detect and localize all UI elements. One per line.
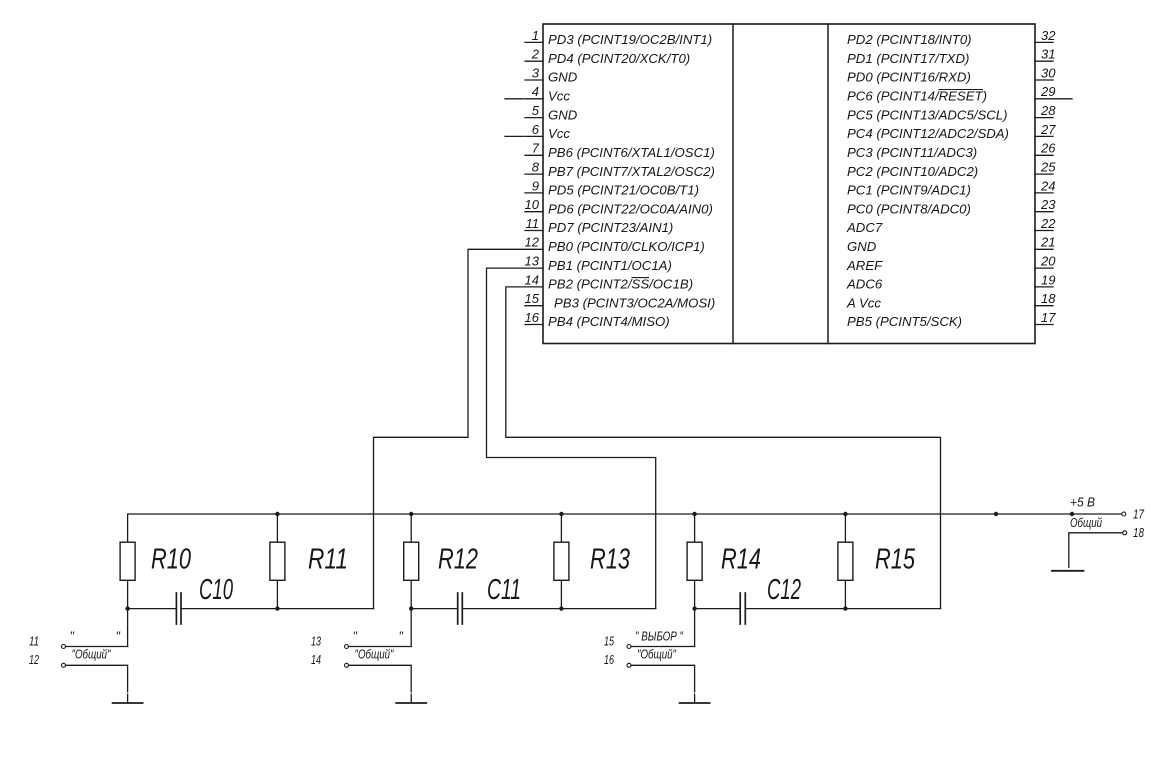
svg-text:ADC6: ADC6	[846, 277, 883, 292]
capacitor C11	[457, 593, 459, 624]
ground symbol	[113, 702, 143, 704]
wire pin 16 to ground	[631, 665, 695, 692]
svg-text:PD1 (PCINT17/TXD): PD1 (PCINT17/TXD)	[847, 51, 969, 66]
junction dot	[1070, 512, 1074, 516]
pin 24 lead	[1035, 192, 1053, 194]
svg-text:1: 1	[532, 28, 539, 43]
IC U1 body	[543, 24, 1035, 344]
svg-text:29: 29	[1040, 84, 1055, 99]
wire pin12 PB0 to node of stage1	[374, 249, 544, 608]
svg-text:PB6 (PCINT6/XTAL1/OSC1): PB6 (PCINT6/XTAL1/OSC1)	[548, 145, 715, 160]
pin 21 lead	[1035, 248, 1053, 250]
junction dot	[559, 512, 563, 516]
svg-text:R13: R13	[590, 544, 630, 576]
svg-text:8: 8	[532, 160, 540, 175]
svg-text:4: 4	[532, 84, 539, 99]
svg-text:16: 16	[604, 653, 614, 667]
svg-text:12: 12	[29, 653, 39, 667]
svg-text:28: 28	[1040, 103, 1056, 118]
pin 29 lead	[1035, 98, 1072, 100]
svg-text:31: 31	[1041, 47, 1055, 62]
node stage3 bottom left wire	[695, 608, 741, 610]
svg-text:6: 6	[532, 122, 540, 137]
pin 25 lead	[1035, 173, 1053, 175]
capacitor C12	[739, 593, 741, 624]
svg-text:R14: R14	[721, 544, 761, 576]
junction dot	[559, 606, 563, 610]
wire pin13 PB1 to node of stage2	[487, 268, 656, 608]
node stage1 bottom left wire	[128, 608, 177, 610]
wire pin14 PB2 to node of stage3	[506, 287, 941, 609]
svg-text:5: 5	[532, 103, 540, 118]
pin 1 lead	[525, 41, 543, 43]
IC internal divider left	[732, 24, 734, 344]
pin 4 lead	[525, 98, 543, 100]
svg-text:R11: R11	[308, 544, 348, 576]
junction dot	[275, 512, 279, 516]
pin 19 lead	[1035, 286, 1053, 288]
svg-text:AREF: AREF	[846, 258, 883, 273]
pin 28 lead	[1035, 117, 1053, 119]
svg-text:": "	[116, 630, 121, 644]
connector pin 13 circle	[345, 645, 349, 649]
junction dot	[409, 606, 413, 610]
ground symbol	[680, 702, 710, 704]
svg-text:24: 24	[1040, 178, 1055, 193]
pin 6 lead	[525, 135, 543, 137]
svg-text:13: 13	[525, 254, 540, 269]
svg-text:PB7 (PCINT7/XTAL2/OSC2): PB7 (PCINT7/XTAL2/OSC2)	[548, 164, 715, 179]
svg-text:ADC7: ADC7	[846, 220, 883, 235]
wire pin 11 to node	[66, 646, 128, 648]
junction dot	[692, 606, 696, 610]
svg-text:7: 7	[532, 141, 540, 156]
resistor R13	[560, 514, 562, 542]
svg-text:PD6 (PCINT22/OC0A/AIN0): PD6 (PCINT22/OC0A/AIN0)	[548, 201, 713, 216]
svg-text:PD5 (PCINT21/OC0B/T1): PD5 (PCINT21/OC0B/T1)	[548, 183, 699, 198]
junction dot	[125, 606, 129, 610]
connector pin 15 circle	[627, 645, 631, 649]
svg-text:": "	[70, 630, 75, 644]
svg-text:R12: R12	[438, 544, 478, 576]
svg-text:+5 В: +5 В	[1070, 496, 1095, 510]
svg-text:9: 9	[532, 178, 539, 193]
svg-text:A Vcc: A Vcc	[846, 295, 881, 310]
svg-text:PC6 (PCINT14/RESET): PC6 (PCINT14/RESET)	[847, 89, 987, 104]
resistor R14	[694, 514, 696, 542]
svg-text:19: 19	[1041, 272, 1055, 287]
Vcc stub pin 6	[505, 135, 524, 137]
resistor R15	[844, 514, 846, 542]
resistor R12	[410, 514, 412, 542]
svg-text:PD2 (PCINT18/INT0): PD2 (PCINT18/INT0)	[847, 32, 972, 47]
junction dot	[994, 512, 998, 516]
svg-text:26: 26	[1040, 141, 1056, 156]
junction dot	[409, 512, 413, 516]
svg-text:R15: R15	[875, 544, 916, 576]
pin 16 lead	[525, 324, 543, 326]
svg-text:GND: GND	[548, 70, 578, 85]
pin 20 lead	[1035, 267, 1053, 269]
svg-text:30: 30	[1041, 65, 1056, 80]
svg-text:20: 20	[1040, 254, 1056, 269]
svg-text:C12: C12	[767, 574, 801, 606]
svg-text:32: 32	[1041, 28, 1056, 43]
pin 26 lead	[1035, 154, 1053, 156]
svg-text:3: 3	[532, 65, 540, 80]
svg-text:PD3 (PCINT19/OC2B/INT1): PD3 (PCINT19/OC2B/INT1)	[548, 32, 712, 47]
pin 10 lead	[525, 211, 543, 213]
svg-text:17: 17	[1133, 507, 1145, 521]
svg-text:PB2 (PCINT2/SS/OC1B): PB2 (PCINT2/SS/OC1B)	[548, 277, 693, 292]
ground symbol	[396, 702, 426, 704]
wire pin 13 to node	[349, 646, 412, 648]
pin 15 lead	[525, 305, 543, 307]
svg-text:2: 2	[531, 47, 540, 62]
pin 2 lead	[525, 60, 543, 62]
Vcc stub pin 4	[505, 98, 524, 100]
resistor R10	[120, 542, 135, 580]
svg-text:10: 10	[525, 197, 540, 212]
svg-text:15: 15	[604, 634, 614, 648]
svg-text:PB0 (PCINT0/CLKO/ICP1): PB0 (PCINT0/CLKO/ICP1)	[548, 239, 705, 254]
svg-text:18: 18	[1133, 526, 1144, 540]
svg-text:GND: GND	[847, 239, 877, 254]
svg-text:22: 22	[1040, 216, 1056, 231]
svg-text:Общий: Общий	[1070, 516, 1102, 530]
overline over RESET in PC6 label	[939, 89, 984, 91]
svg-text:PD0 (PCINT16/RXD): PD0 (PCINT16/RXD)	[847, 70, 971, 85]
svg-text:17: 17	[1041, 310, 1056, 325]
svg-text:11: 11	[29, 634, 39, 648]
svg-text:PD7 (PCINT23/AIN1): PD7 (PCINT23/AIN1)	[548, 220, 673, 235]
svg-text:"Общий": "Общий"	[355, 648, 394, 662]
node stage3 bottom right wire	[745, 608, 940, 610]
wire pin 12 to ground	[66, 665, 128, 692]
junction dot	[843, 606, 847, 610]
connector pin 16 circle	[627, 663, 631, 667]
svg-text:15: 15	[525, 291, 540, 306]
svg-text:PB3 (PCINT3/OC2A/MOSI): PB3 (PCINT3/OC2A/MOSI)	[554, 295, 715, 310]
svg-text:" ВЫБОР ": " ВЫБОР "	[635, 630, 683, 644]
svg-text:PD4 (PCINT20/XCK/T0): PD4 (PCINT20/XCK/T0)	[548, 51, 690, 66]
svg-text:27: 27	[1040, 122, 1056, 137]
svg-text:PB5 (PCINT5/SCK): PB5 (PCINT5/SCK)	[847, 314, 962, 329]
junction dot	[692, 512, 696, 516]
pin 5 lead	[525, 117, 543, 119]
pin 7 lead	[525, 154, 543, 156]
+5V bus wire	[128, 514, 1122, 542]
pin 3 lead	[525, 79, 543, 81]
pin 8 lead	[525, 173, 543, 175]
svg-text:"Общий": "Общий"	[72, 648, 111, 662]
overline over SS in PB2 label	[632, 277, 650, 279]
pin 31 lead	[1035, 60, 1053, 62]
svg-text:18: 18	[1041, 291, 1056, 306]
svg-text:11: 11	[526, 216, 540, 231]
pin 18 lead	[1035, 305, 1053, 307]
svg-text:16: 16	[525, 310, 540, 325]
svg-text:PB4 (PCINT4/MISO): PB4 (PCINT4/MISO)	[548, 314, 670, 329]
svg-text:14: 14	[525, 272, 539, 287]
node stage1 bottom right wire	[181, 608, 374, 610]
svg-text:13: 13	[311, 634, 321, 648]
resistor R11	[276, 514, 278, 542]
junction dot	[843, 512, 847, 516]
svg-text:PC4 (PCINT12/ADC2/SDA): PC4 (PCINT12/ADC2/SDA)	[847, 126, 1009, 141]
svg-text:C11: C11	[487, 574, 521, 606]
svg-text:21: 21	[1040, 235, 1055, 250]
svg-text:14: 14	[311, 653, 321, 667]
svg-text:PC1 (PCINT9/ADC1): PC1 (PCINT9/ADC1)	[847, 183, 971, 198]
connector pin 14 circle	[345, 663, 349, 667]
pin 9 lead	[525, 192, 543, 194]
svg-text:": "	[353, 630, 358, 644]
svg-text:12: 12	[525, 235, 540, 250]
svg-text:PB1 (PCINT1/OC1A): PB1 (PCINT1/OC1A)	[548, 258, 672, 273]
pin 30 lead	[1035, 79, 1053, 81]
pin 23 lead	[1035, 211, 1053, 213]
connector pin 18 circle (common)	[1123, 531, 1127, 535]
svg-text:23: 23	[1040, 197, 1056, 212]
connector pin 11 circle	[62, 645, 66, 649]
svg-text:Vcc: Vcc	[548, 89, 570, 104]
wire pin 14 to ground	[349, 665, 412, 692]
capacitor C10	[175, 593, 177, 624]
svg-text:"Общий": "Общий"	[637, 648, 676, 662]
svg-text:GND: GND	[548, 107, 578, 122]
svg-text:C10: C10	[199, 574, 233, 606]
junction dot	[275, 606, 279, 610]
pin 27 lead	[1035, 135, 1053, 137]
connector pin 17 circle (+5V)	[1122, 512, 1126, 516]
svg-text:PC5 (PCINT13/ADC5/SCL): PC5 (PCINT13/ADC5/SCL)	[847, 107, 1008, 122]
svg-text:25: 25	[1040, 160, 1056, 175]
pin 32 lead	[1035, 41, 1053, 43]
pin 22 lead	[1035, 230, 1053, 232]
node stage2 bottom left wire	[411, 608, 458, 610]
pin 17 lead	[1035, 324, 1053, 326]
connector pin 12 circle	[62, 663, 66, 667]
wire pin 18 to ground	[1069, 533, 1123, 568]
wire pin 15 to node	[631, 646, 695, 648]
IC internal divider right	[827, 24, 829, 344]
ground symbol right	[1052, 570, 1084, 572]
pin 11 lead	[525, 230, 543, 232]
svg-text:Vcc: Vcc	[548, 126, 570, 141]
svg-text:PC3 (PCINT11/ADC3): PC3 (PCINT11/ADC3)	[847, 145, 977, 160]
svg-text:PC0 (PCINT8/ADC0): PC0 (PCINT8/ADC0)	[847, 201, 971, 216]
svg-text:R10: R10	[151, 544, 191, 576]
node stage2 bottom right wire	[462, 608, 655, 610]
svg-text:PC2 (PCINT10/ADC2): PC2 (PCINT10/ADC2)	[847, 164, 978, 179]
svg-text:": "	[399, 630, 404, 644]
